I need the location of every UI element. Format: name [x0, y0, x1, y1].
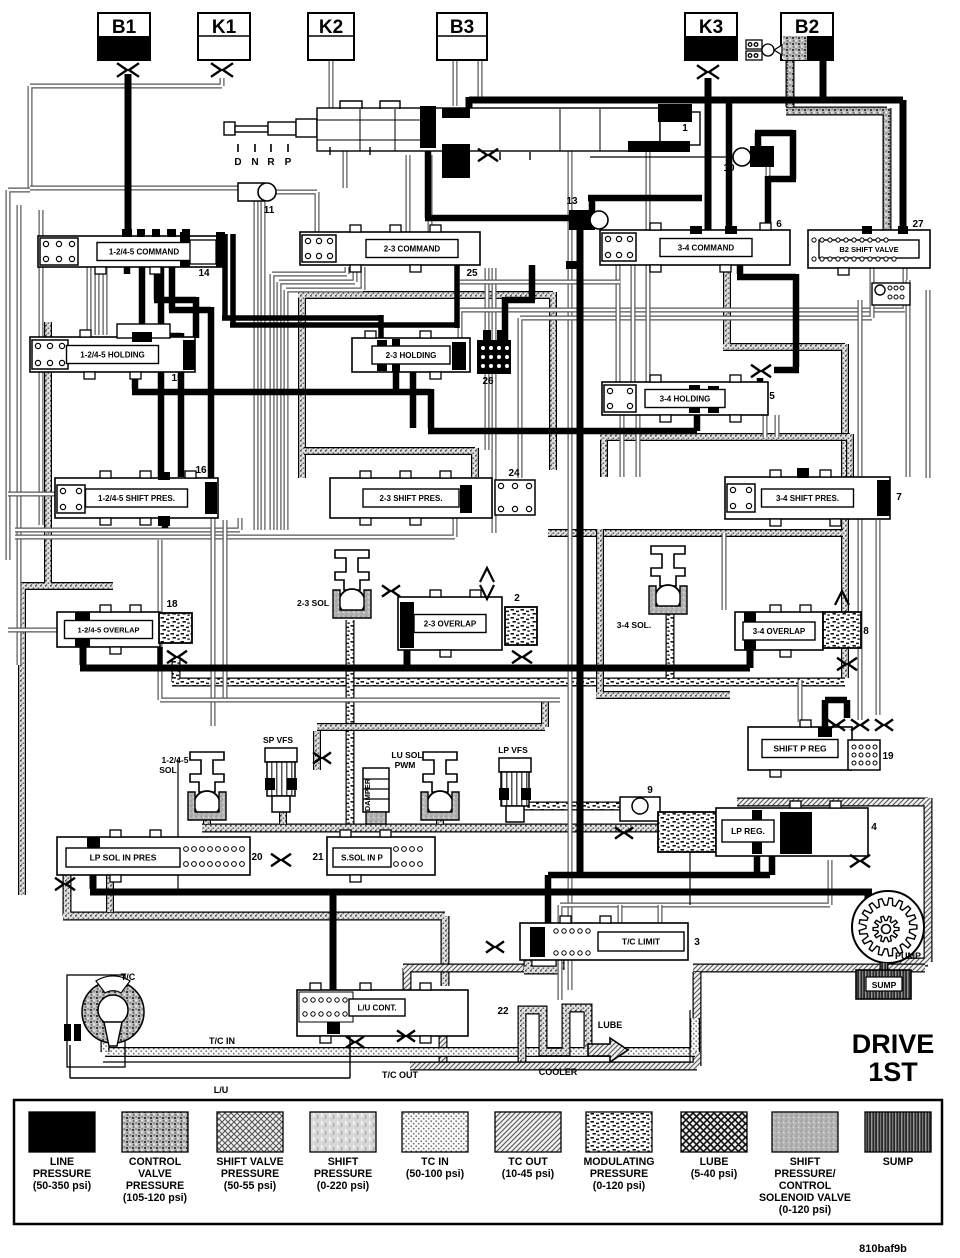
svg-text:16: 16 — [195, 465, 207, 476]
solenoid 3-4 — [649, 546, 687, 614]
wire lp vfs modulating line to valve 9 — [512, 806, 660, 812]
accumulator 2 box — [505, 607, 537, 645]
wire long center pair x570 — [568, 150, 573, 990]
solenoid 1-2/4-5 — [188, 752, 226, 820]
wire 3-4 solenoid drop pipe — [666, 614, 675, 678]
torque converter clutch plates — [64, 1024, 71, 1041]
valve L/U CONT — [297, 983, 468, 1043]
svg-text:COOLER: COOLER — [539, 1067, 578, 1077]
svg-text:3-4 SHIFT PRES.: 3-4 SHIFT PRES. — [776, 494, 839, 503]
svg-text:SHIFT VALVEPRESSURE(50-55 psi): SHIFT VALVEPRESSURE(50-55 psi) — [216, 1156, 283, 1192]
wire shift-valve pressure pipe around 2-3 valves — [298, 292, 553, 478]
wire manual valve to 3-4 command a — [646, 152, 651, 230]
wire left shift pressure riser — [20, 322, 113, 895]
wire solenoid supply band y828 — [202, 808, 737, 828]
wire t/c limit feed — [545, 875, 552, 930]
wire overlap line pressure run — [80, 645, 750, 668]
check symbol above 3-4 overlap — [835, 591, 849, 605]
wire 1-2/4-5 command long drop x161 — [158, 263, 165, 480]
solenoid 2-3 — [333, 550, 371, 618]
wire t/c in line — [105, 1018, 695, 1052]
valve symbol below 2-3 overlap — [512, 651, 532, 663]
svg-text:2: 2 — [514, 593, 520, 604]
wire command end pair to 2-3 holding a — [222, 234, 381, 342]
wire top line pressure rail — [469, 97, 903, 237]
solenoid LP VFS — [499, 758, 531, 822]
svg-text:MODULATINGPRESSURE(0-120 psi): MODULATINGPRESSURE(0-120 psi) — [583, 1156, 654, 1192]
cooler serpentine — [522, 1008, 588, 1062]
wire B3 drop a — [453, 60, 458, 106]
svg-text:22: 22 — [497, 1006, 509, 1017]
svg-text:6: 6 — [776, 219, 782, 230]
wire manual valve black fill risers — [421, 108, 435, 146]
check valve 10 — [733, 146, 774, 167]
wire 3-4 command right loop to holding — [737, 265, 799, 370]
svg-text:810baf9b: 810baf9b — [859, 1243, 907, 1255]
valve symbol below l/u cont a — [346, 1036, 364, 1047]
valve symbol left of t/c limit — [486, 941, 504, 952]
wire valve 11 to 2-3 command — [276, 192, 317, 232]
wire manual valve port drop x345 — [343, 148, 348, 188]
wire 2-3 holding bottom riser — [393, 370, 400, 392]
svg-text:24: 24 — [508, 468, 520, 479]
svg-text:18: 18 — [166, 599, 178, 610]
valve shift p reg — [748, 720, 852, 777]
wire solenoid riser sp vfs — [279, 812, 287, 824]
valve symbol below 9 — [615, 827, 633, 838]
svg-text:LUBE: LUBE — [598, 1020, 623, 1030]
legend swatch tc out — [495, 1112, 561, 1152]
wire lp sol line pressure run — [90, 840, 872, 892]
svg-text:26: 26 — [482, 376, 494, 387]
valve S.SOL IN P — [327, 830, 435, 882]
wire 1-2/4-5 command drop to holding — [139, 263, 146, 340]
svg-text:2-3 OVERLAP: 2-3 OVERLAP — [424, 620, 477, 629]
torque converter torus — [82, 976, 144, 1046]
svg-text:P: P — [285, 157, 292, 168]
wire 2-3 solenoid drop pipe — [346, 620, 355, 830]
valve 26 grid box — [477, 330, 511, 374]
wire b2 shift valve bottom run a — [460, 268, 905, 338]
wire right column x878 — [876, 520, 881, 715]
wire hatched band y730 — [317, 700, 545, 770]
wire l/u line — [70, 1036, 350, 1078]
svg-text:1-2/4-5 HOLDING: 1-2/4-5 HOLDING — [80, 351, 144, 360]
svg-text:19: 19 — [882, 751, 894, 762]
wire lp sol frame left — [63, 837, 445, 986]
check valve 11 — [238, 183, 276, 201]
valve 1-2/4-5 shift pres — [55, 471, 218, 526]
svg-text:TC OUT(10-45 psi): TC OUT(10-45 psi) — [502, 1156, 554, 1180]
valve symbol right of lp sol — [271, 854, 291, 866]
svg-text:4: 4 — [871, 822, 877, 833]
svg-text:21: 21 — [312, 852, 324, 863]
1-2/4-5 command end cap — [190, 240, 216, 264]
wire 3-4 holding bottom b — [636, 415, 641, 477]
L/U CONT spring dots — [299, 992, 353, 1022]
svg-text:1-2/4-5 COMMAND: 1-2/4-5 COMMAND — [109, 248, 179, 257]
valve 2-3 command — [300, 225, 480, 272]
svg-text:SHIFT P REG: SHIFT P REG — [773, 744, 827, 754]
wire command end pair to 2-3 holding b — [230, 234, 457, 328]
valve B2 shift valve — [808, 226, 930, 275]
check valve 13 — [569, 210, 608, 230]
legend swatch shift valve — [217, 1112, 283, 1152]
B2 shift valve spring dots — [812, 238, 896, 261]
solenoid SP VFS — [265, 748, 297, 812]
solenoid LU PWM — [421, 752, 459, 820]
svg-text:1-2/4-5 OVERLAP: 1-2/4-5 OVERLAP — [77, 626, 139, 635]
svg-text:T/C OUT: T/C OUT — [382, 1070, 418, 1080]
legend swatch lube — [681, 1112, 747, 1152]
wire 2-3 command right drops — [487, 268, 494, 533]
svg-text:LP VFS: LP VFS — [498, 745, 528, 755]
label LP REG — [722, 820, 774, 842]
wire overlap frame x213 — [211, 500, 216, 726]
valve 1-2/4-5 holding — [30, 330, 195, 379]
wire t/c limit bottom hatch — [524, 957, 560, 970]
wire manual valve to 2-3 command a — [406, 155, 411, 232]
svg-text:S.SOL IN P: S.SOL IN P — [341, 853, 383, 862]
svg-text:1-2/4-5: 1-2/4-5 — [162, 755, 189, 765]
wire left rail x41 — [39, 210, 44, 525]
svg-text:3-4 OVERLAP: 3-4 OVERLAP — [753, 627, 806, 636]
clutch K2 box — [308, 13, 354, 60]
wire B2 black drop — [820, 58, 827, 100]
valve symbol below 3-4 overlap — [837, 658, 857, 670]
wire 2-3 command bottom steps b — [279, 267, 355, 530]
wire B3 drop b — [478, 60, 483, 100]
wire manual valve pilot line — [590, 156, 733, 158]
valve 2-3 shift pres — [330, 471, 492, 525]
wire right rail x908 — [906, 280, 911, 477]
wire b2 shift valve bottom run b — [520, 268, 872, 478]
svg-text:DRIVE: DRIVE — [852, 1029, 935, 1059]
svg-text:L/U: L/U — [214, 1085, 229, 1095]
svg-text:14: 14 — [198, 268, 210, 279]
valve symbol below B1 — [117, 63, 139, 77]
valve symbol below l/u cont b — [397, 1030, 415, 1041]
valve 2-3 holding — [352, 331, 470, 379]
S.SOL spring dots — [394, 847, 423, 867]
valve 3-4 holding — [602, 375, 768, 422]
wire left rail x19 — [17, 205, 22, 665]
wire B2 control-pressure pipe — [786, 58, 887, 237]
wire 1-2/4-5 command cluster c — [169, 263, 211, 484]
valve symbol right of sp vfs — [313, 752, 331, 763]
wire valve 13 drop long vertical — [577, 228, 584, 875]
wire holding to long line — [132, 372, 697, 431]
valve symbol left of lp sol — [55, 878, 75, 890]
svg-text:3-4 HOLDING: 3-4 HOLDING — [660, 395, 711, 404]
wire 2-3 command bottom steps c — [286, 267, 363, 530]
svg-text:PWM: PWM — [395, 760, 416, 770]
svg-text:LP SOL IN PRES: LP SOL IN PRES — [90, 853, 157, 863]
sump — [856, 970, 911, 999]
svg-text:8: 8 — [863, 626, 869, 637]
check symbol left of 2-3 overlap down — [480, 585, 494, 599]
wire pipe to valve 11 — [30, 186, 240, 191]
svg-text:T/C LIMIT: T/C LIMIT — [622, 937, 661, 947]
wire damper riser — [372, 820, 380, 824]
valve 3-4 overlap — [735, 605, 823, 657]
svg-text:3: 3 — [694, 937, 700, 948]
valve 3-4 shift pres — [725, 468, 890, 526]
clutch B3 box — [437, 13, 487, 60]
clutch K1 box — [198, 13, 250, 60]
wire shift pres bottom stub — [162, 518, 169, 528]
valve symbol right top — [875, 719, 893, 730]
pump — [852, 891, 924, 963]
legend swatch sump — [865, 1112, 931, 1152]
wire y282 gray run right — [460, 280, 620, 285]
wire l/u cont feed drop — [330, 892, 337, 1000]
wire 2-3 holding bottom riser b — [410, 370, 417, 428]
wire K2 drop — [329, 60, 334, 108]
wire 3-4 holding x-valve stub — [757, 378, 764, 385]
wire 2-3 command bottom steps — [272, 267, 347, 530]
wire valve 13 left branch — [425, 146, 572, 218]
wire K1 pipe down-left — [30, 78, 222, 188]
legend swatch shift — [310, 1112, 376, 1152]
accumulator 8 box — [823, 612, 861, 648]
valve 3-4 command — [566, 223, 790, 272]
wire l/u line upper — [103, 1010, 690, 1062]
svg-text:11: 11 — [264, 205, 275, 216]
svg-text:1: 1 — [682, 123, 688, 134]
wire 3-4 sol gray pair — [722, 533, 727, 610]
svg-text:9: 9 — [647, 785, 653, 796]
svg-text:K1: K1 — [212, 17, 237, 38]
svg-text:B1: B1 — [112, 17, 137, 38]
svg-text:DAMPER: DAMPER — [363, 778, 372, 811]
clutch B1 box — [98, 13, 150, 60]
svg-text:5: 5 — [769, 391, 775, 402]
svg-text:3-4 COMMAND: 3-4 COMMAND — [678, 244, 735, 253]
legend swatch control — [122, 1112, 188, 1152]
wire shift p reg link — [825, 700, 847, 737]
wire 1-2/4-5 command cluster b — [154, 263, 196, 338]
valve symbol at manual valve left — [478, 149, 498, 161]
wire shift-valve pressure pipe 3-4 command to right rail — [723, 265, 845, 678]
wire right column x860 — [858, 300, 863, 720]
svg-text:CONTROLVALVEPRESSURE(105-120 p: CONTROLVALVEPRESSURE(105-120 psi) — [123, 1156, 187, 1204]
wire lower frame — [160, 540, 560, 700]
wire manual valve to 2-3 command b — [428, 155, 433, 232]
check symbol left of 2-3 overlap up — [480, 568, 494, 582]
svg-text:K3: K3 — [699, 17, 723, 38]
check valve 9 — [620, 797, 660, 821]
accumulator box left of LP REG — [658, 812, 716, 852]
wire overlap frame x225 — [223, 520, 228, 700]
wire lp reg top link — [734, 808, 741, 812]
wire 1-2/4-5 overlap port drop — [157, 647, 163, 668]
svg-text:LP REG.: LP REG. — [731, 826, 765, 836]
wire command bottom stub — [124, 263, 131, 274]
legend swatch shift — [772, 1112, 838, 1152]
valve 19 grid box — [848, 740, 880, 770]
svg-text:2-3 COMMAND: 2-3 COMMAND — [384, 245, 441, 254]
wire 3-4 command to holding c — [646, 265, 651, 382]
label T/C LIMIT — [598, 932, 684, 951]
label S.SOL IN P — [333, 848, 391, 867]
manual valve 1 — [224, 101, 700, 160]
svg-text:SOL: SOL — [159, 765, 176, 775]
svg-text:20: 20 — [251, 852, 263, 863]
svg-text:B2 SHIFT VALVE: B2 SHIFT VALVE — [839, 245, 898, 254]
wire 3-4 command to holding b — [631, 265, 636, 382]
svg-text:1-2/4-5 SHIFT PRES.: 1-2/4-5 SHIFT PRES. — [98, 494, 175, 503]
wire t/c out long line — [410, 968, 925, 1066]
wire lp reg thin frame — [178, 760, 548, 892]
wire left rail x8 — [8, 190, 30, 560]
valve symbol below LP REG — [850, 855, 870, 867]
wire valve 11 drop lines — [256, 201, 263, 530]
svg-text:2-3 SOL: 2-3 SOL — [297, 598, 329, 608]
wire lp reg bottom links — [757, 852, 772, 875]
wire 2-3 overlap drop — [404, 648, 411, 668]
svg-text:D: D — [234, 157, 241, 168]
wire pump feed drop — [865, 892, 872, 905]
wire t/c limit top feeds — [620, 905, 660, 923]
wire shift p reg thin loop — [690, 820, 700, 905]
wire 3-4 holding to frame — [765, 415, 777, 437]
svg-text:SUMP: SUMP — [872, 980, 897, 990]
svg-text:T/C: T/C — [121, 972, 136, 982]
label L/U CONT — [349, 999, 405, 1016]
lube arrow — [588, 1038, 628, 1062]
svg-text:T/C IN: T/C IN — [209, 1036, 235, 1046]
svg-text:15: 15 — [171, 373, 183, 384]
manual valve detent ticks — [238, 144, 288, 152]
wire s.sol riser — [106, 875, 114, 912]
svg-text:3-4 SOL.: 3-4 SOL. — [617, 620, 651, 630]
wire hatched band y533 — [548, 529, 843, 537]
wire t/c out from l/u cont — [403, 968, 525, 1022]
valve LP SOL IN PRES — [57, 830, 250, 882]
valve 2-3 overlap — [398, 590, 502, 657]
valve symbol below K1 — [211, 63, 233, 77]
svg-text:27: 27 — [912, 219, 924, 230]
svg-text:R: R — [267, 157, 275, 168]
wire 3-4 command to valve 26 — [505, 265, 535, 340]
wire left rail to shift pres — [8, 492, 55, 497]
wire shift pres bottom run a — [15, 518, 240, 530]
svg-text:7: 7 — [896, 492, 902, 503]
valve symbol above shift p reg b — [851, 719, 869, 730]
svg-text:LU SOL: LU SOL — [391, 750, 422, 760]
wire B1 line pressure drop — [125, 74, 132, 240]
clutch K3 box — [685, 13, 737, 60]
svg-text:B2: B2 — [795, 17, 819, 38]
svg-text:K2: K2 — [319, 17, 343, 38]
svg-text:SUMP: SUMP — [883, 1156, 914, 1168]
wire modulating band to overlap valves — [172, 660, 845, 682]
label LP SOL IN PRES — [66, 848, 180, 867]
svg-text:SP VFS: SP VFS — [263, 735, 293, 745]
valve symbol above 3-4 holding — [751, 365, 771, 377]
svg-text:1ST: 1ST — [868, 1057, 918, 1087]
wire shift pressure frame around 2-3 shift pres — [304, 448, 475, 477]
wire t/c torus inlet — [101, 1040, 110, 1052]
wire sump suction loop — [737, 798, 928, 962]
svg-text:2-3 SHIFT PRES.: 2-3 SHIFT PRES. — [379, 494, 442, 503]
wire 3-4 command to holding a — [616, 265, 621, 382]
svg-text:2-3 HOLDING: 2-3 HOLDING — [386, 351, 437, 360]
svg-text:10: 10 — [723, 163, 735, 174]
wire pump to sump — [880, 963, 889, 975]
LP SOL spring dots — [184, 847, 245, 867]
valve 1-2/4-5 overlap — [57, 605, 160, 654]
valve symbol below K3 — [697, 65, 719, 79]
wire shift pres bottom run b — [15, 518, 455, 537]
valve 24 spring box — [495, 480, 535, 515]
wire solenoid riser 1-2/4-5 sol — [203, 818, 211, 824]
wire 3-4 holding bottom a — [620, 415, 625, 477]
valve symbol above shift p reg a — [827, 719, 845, 730]
valve T/C LIMIT — [520, 916, 688, 960]
wire solenoid riser lu sol — [436, 818, 444, 824]
wire lower distribution y875 — [548, 872, 770, 879]
wire K3 drop to 3-4 command — [705, 78, 712, 230]
valve symbol right of 2-3 sol — [382, 585, 400, 596]
wire hatched vertical x600 — [596, 529, 730, 695]
wire valve 13 link to K3 line — [588, 198, 702, 212]
valve 1-2/4-5 command — [38, 229, 225, 274]
T/C LIMIT spring dots — [554, 929, 590, 955]
legend swatch line — [29, 1112, 95, 1152]
B2 feed solenoid symbol — [746, 40, 782, 60]
svg-text:B3: B3 — [450, 17, 474, 38]
wire lp reg frame — [560, 860, 830, 1000]
svg-text:PUMP: PUMP — [895, 951, 921, 961]
legend swatch modulating — [586, 1112, 652, 1152]
wire rail drop to 3-4 command x729 — [726, 100, 733, 230]
wire shift p reg feed — [798, 680, 803, 722]
wire left rail to overlap — [8, 628, 57, 633]
svg-text:N: N — [251, 157, 258, 168]
legend swatch tc in — [402, 1112, 468, 1152]
legend frame — [14, 1100, 942, 1224]
svg-text:25: 25 — [466, 268, 478, 279]
wire command to holding gray ports — [89, 267, 105, 335]
wire holding ext drop x181 — [167, 333, 181, 477]
accumulator 18 box — [159, 613, 192, 643]
svg-text:13: 13 — [566, 196, 578, 207]
wire shift pressure frame around 3-4 shift pres — [600, 434, 850, 477]
valve symbol below 1-2/4-5 overlap — [167, 651, 187, 663]
retainer below B2 shift valve — [872, 283, 910, 305]
clutch B2 box — [781, 13, 833, 60]
svg-text:L/U CONT.: L/U CONT. — [357, 1003, 396, 1012]
1-2/4-5 holding upper tab — [117, 324, 170, 338]
wire right rail x928 — [926, 290, 931, 478]
wire manual valve to 3-4 command b — [766, 155, 771, 178]
torque converter box — [67, 975, 125, 1067]
valve LP REG — [716, 801, 868, 856]
damper — [363, 768, 389, 824]
wire valve 10 loop — [755, 130, 796, 230]
